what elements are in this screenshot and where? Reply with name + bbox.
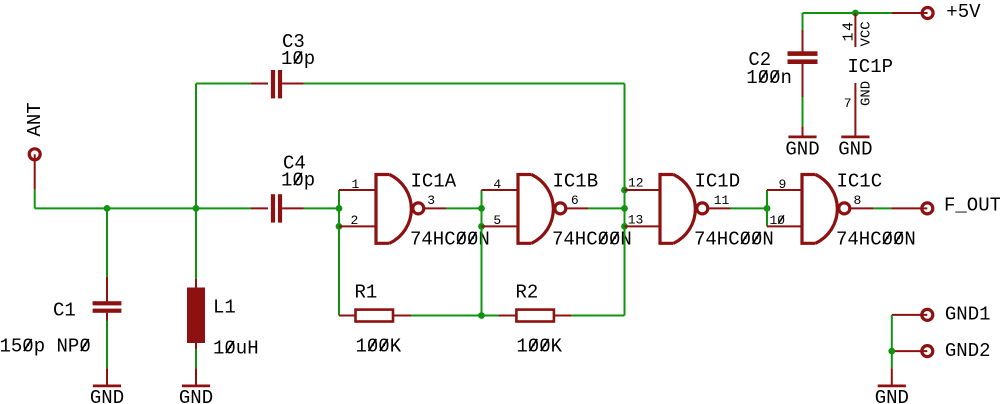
node IC1B pin5 junction bbox=[478, 223, 485, 230]
node pin14 junction bbox=[852, 10, 859, 17]
pin GND1 bbox=[892, 304, 991, 326]
svg-text:F_OUT: F_OUT bbox=[944, 195, 1000, 217]
svg-text:100K: 100K bbox=[516, 336, 562, 358]
node IC1B out junction bbox=[621, 205, 628, 212]
svg-text:8: 8 bbox=[854, 193, 862, 208]
svg-text:GND1: GND1 bbox=[945, 304, 991, 326]
ground bottom right bbox=[875, 386, 909, 404]
svg-text:150p NP0: 150p NP0 bbox=[0, 336, 91, 358]
pin stub 9 bbox=[767, 189, 802, 191]
node IC1B in junction bbox=[478, 205, 485, 212]
node R1-R2 junction bbox=[478, 312, 485, 319]
capacitor C4 bbox=[251, 153, 315, 223]
IC1P pin 14 VCC bbox=[841, 13, 875, 47]
svg-text:GND: GND bbox=[838, 139, 872, 161]
wire IC1B output bbox=[566, 207, 625, 209]
wire IC1A output bbox=[424, 207, 482, 209]
pin stub 10 bbox=[767, 225, 802, 227]
svg-text:IC1A: IC1A bbox=[411, 171, 457, 193]
svg-text:5: 5 bbox=[493, 213, 501, 228]
svg-text:74HC00N: 74HC00N bbox=[552, 228, 632, 250]
svg-text:IC1D: IC1D bbox=[695, 171, 741, 193]
wire GND1-GND2 bbox=[891, 315, 893, 351]
svg-text:74HC00N: 74HC00N bbox=[836, 228, 916, 250]
svg-text:GND: GND bbox=[875, 387, 909, 404]
node junction L1/C3 bbox=[193, 205, 200, 212]
node pin12 junction bbox=[621, 187, 628, 194]
resistor R1 bbox=[339, 281, 482, 357]
node pin13 junction bbox=[621, 223, 628, 230]
svg-text:10p: 10p bbox=[281, 48, 315, 70]
pin ANT bbox=[24, 102, 46, 189]
nand gate IC1B bbox=[493, 171, 631, 251]
svg-text:4: 4 bbox=[493, 177, 501, 192]
svg-text:R2: R2 bbox=[516, 281, 539, 303]
pin stub 12 bbox=[625, 189, 661, 191]
svg-text:+5V: +5V bbox=[946, 1, 981, 23]
wire IC1C input column bbox=[766, 190, 768, 226]
svg-text:IC1P: IC1P bbox=[847, 56, 893, 78]
wire +5V rail bbox=[803, 12, 892, 14]
svg-text:11: 11 bbox=[714, 193, 730, 208]
zero slashes bbox=[24, 52, 903, 354]
nand gate IC1A bbox=[351, 171, 490, 251]
wire C4 to IC1A inputs bbox=[304, 207, 340, 209]
svg-text:R1: R1 bbox=[355, 281, 378, 303]
svg-text:3: 3 bbox=[427, 193, 435, 208]
svg-text:74HC00N: 74HC00N bbox=[694, 228, 774, 250]
node IC1A pin2 junction bbox=[336, 223, 343, 230]
pin stub 4 bbox=[482, 189, 519, 191]
svg-text:74HC00N: 74HC00N bbox=[410, 228, 490, 250]
capacitor C3 bbox=[196, 31, 315, 98]
pin stub 2 bbox=[339, 225, 376, 227]
resistor R2 bbox=[482, 281, 625, 357]
svg-text:7: 7 bbox=[844, 96, 852, 111]
svg-text:1: 1 bbox=[352, 177, 360, 192]
capacitor C1 bbox=[0, 208, 121, 385]
pin stub 5 bbox=[482, 225, 519, 227]
svg-text:13: 13 bbox=[628, 213, 644, 228]
ground under C2 bbox=[785, 137, 819, 161]
svg-text:10p: 10p bbox=[281, 170, 315, 192]
svg-text:14: 14 bbox=[841, 20, 858, 41]
wire C3 branch up bbox=[195, 84, 197, 209]
ground under C1 bbox=[90, 386, 124, 404]
pin stub 1 bbox=[339, 189, 376, 191]
svg-text:6: 6 bbox=[571, 193, 579, 208]
node IC1A in junction bbox=[336, 205, 343, 212]
svg-text:GND2: GND2 bbox=[945, 340, 991, 362]
svg-text:GND: GND bbox=[859, 81, 875, 106]
wire IC1B input column bbox=[481, 190, 483, 316]
ground under L1 bbox=[179, 386, 213, 404]
svg-text:9: 9 bbox=[779, 177, 787, 192]
svg-text:IC1B: IC1B bbox=[553, 171, 599, 193]
node IC1C in junction bbox=[764, 205, 771, 212]
svg-text:ANT: ANT bbox=[24, 102, 46, 136]
wire IC1D input column bbox=[624, 190, 626, 316]
pin F_OUT bbox=[891, 195, 1000, 217]
inductor L1 bbox=[187, 208, 259, 385]
svg-text:2: 2 bbox=[351, 213, 359, 228]
nand gate IC1C bbox=[770, 171, 916, 251]
ground under pin 7 bbox=[838, 137, 872, 161]
pin GND2 bbox=[892, 340, 991, 362]
wire IC1C output to F_OUT bbox=[850, 207, 891, 209]
nand gate IC1D bbox=[628, 171, 774, 251]
node GND2 junction bbox=[888, 348, 895, 355]
svg-text:100K: 100K bbox=[356, 336, 402, 358]
capacitor C2 bbox=[746, 13, 817, 137]
pin stub 13 bbox=[625, 225, 661, 227]
wire IC1A input column bbox=[338, 190, 340, 316]
IC1P pin 7 GND bbox=[844, 81, 875, 137]
svg-text:100n: 100n bbox=[746, 67, 792, 89]
wire to ground bbox=[891, 351, 893, 385]
wire C3 to IC1B output net bbox=[304, 84, 625, 191]
svg-text:GND: GND bbox=[785, 139, 819, 161]
svg-text:IC1C: IC1C bbox=[837, 171, 883, 193]
svg-text:10: 10 bbox=[770, 213, 786, 228]
svg-text:GND: GND bbox=[179, 387, 213, 404]
svg-text:L1: L1 bbox=[213, 297, 236, 319]
svg-text:GND: GND bbox=[90, 387, 124, 404]
wire IC1D output bbox=[708, 207, 767, 209]
svg-text:C1: C1 bbox=[53, 300, 76, 322]
node junction C1 bbox=[104, 205, 111, 212]
pin +5V bbox=[892, 1, 982, 23]
svg-text:VCC: VCC bbox=[859, 21, 875, 46]
svg-text:10uH: 10uH bbox=[213, 338, 259, 360]
svg-text:12: 12 bbox=[628, 176, 644, 191]
wire ANT net bbox=[35, 190, 251, 209]
